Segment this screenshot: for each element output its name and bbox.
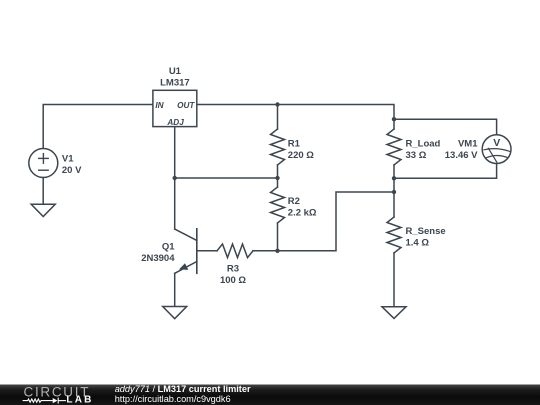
svg-text:Q1: Q1: [162, 242, 175, 253]
wire ADJ node to R1/R2 node: [175, 177, 278, 179]
voltmeter VM1: [482, 135, 511, 164]
svg-text:R_Sense: R_Sense: [406, 226, 446, 237]
wire R1 bottom lead: [277, 165, 279, 178]
regulator U1 LM317 box: [153, 90, 197, 126]
wire R2 bottom lead: [277, 223, 279, 251]
svg-text:2.2 kΩ: 2.2 kΩ: [288, 208, 317, 219]
wire node E to node G: [393, 178, 395, 192]
wire R3 to node and up to R_Sense node: [253, 192, 394, 251]
svg-text:R_Load: R_Load: [406, 138, 441, 149]
svg-text:VM1: VM1: [458, 138, 478, 149]
svg-text:addy771 / LM317 current limite: addy771 / LM317 current limiter: [115, 384, 251, 394]
svg-text:R1: R1: [288, 139, 301, 150]
wire Q1 base to R3: [197, 250, 217, 252]
svg-text:2N3904: 2N3904: [141, 253, 175, 264]
node at R_Sense top: [392, 190, 396, 194]
wire ADJ pin down to Q1 collector: [174, 127, 176, 229]
node between R1 and R2: [275, 176, 279, 180]
wire R_Load top lead: [393, 119, 395, 129]
resistor R_Sense: [387, 217, 401, 253]
wire R_Sense top lead: [393, 192, 395, 217]
node on OUT wire at R1: [275, 102, 279, 106]
voltage source V1: [29, 149, 58, 178]
node on ADJ line: [173, 176, 177, 180]
node at R_Load top: [392, 117, 396, 121]
logo resistor zigzag: [23, 398, 66, 404]
svg-text:20 V: 20 V: [62, 165, 82, 176]
wire node B to voltmeter top: [394, 119, 497, 135]
svg-text:http://circuitlab.com/c9vgdk6: http://circuitlab.com/c9vgdk6: [115, 394, 231, 404]
wire R_Sense to ground: [393, 253, 395, 307]
wire V1 to ground: [42, 178, 44, 205]
ground below Q1: [163, 307, 187, 319]
wire OUT pin to R_Load column: [197, 105, 394, 120]
wire Q1 emitter to ground: [174, 273, 176, 306]
ground below V1: [31, 204, 55, 216]
svg-text:IN: IN: [155, 101, 164, 110]
resistor R3: [217, 244, 253, 258]
wire R_Load bottom lead: [393, 165, 395, 178]
svg-text:V1: V1: [62, 154, 74, 165]
svg-text:V: V: [493, 137, 500, 149]
svg-text:ADJ: ADJ: [166, 118, 184, 127]
resistor R2: [271, 187, 285, 223]
wire R1 top lead: [277, 105, 279, 130]
svg-text:LM317: LM317: [160, 77, 190, 88]
svg-text:100 Ω: 100 Ω: [220, 275, 246, 286]
wire voltmeter bottom to node E: [394, 164, 497, 179]
svg-text:13.46 V: 13.46 V: [445, 150, 478, 161]
transistor Q1: [175, 229, 197, 273]
resistor R1: [271, 129, 285, 165]
svg-text:R2: R2: [288, 196, 300, 207]
node at R2 bottom: [275, 249, 279, 253]
svg-text:220 Ω: 220 Ω: [288, 150, 314, 161]
wire V1 to IN pin: [43, 105, 153, 149]
svg-text:1.4 Ω: 1.4 Ω: [406, 238, 430, 249]
wire R2 top lead: [277, 178, 279, 187]
svg-text:LAB: LAB: [66, 395, 93, 405]
ground below R_Sense: [382, 307, 406, 319]
svg-text:33 Ω: 33 Ω: [406, 150, 427, 161]
resistor R_Load: [387, 129, 401, 165]
node at R_Load bottom: [392, 176, 396, 180]
logo diode: [53, 398, 58, 403]
svg-text:R3: R3: [227, 264, 239, 275]
svg-text:OUT: OUT: [177, 101, 195, 110]
svg-text:U1: U1: [169, 66, 182, 77]
